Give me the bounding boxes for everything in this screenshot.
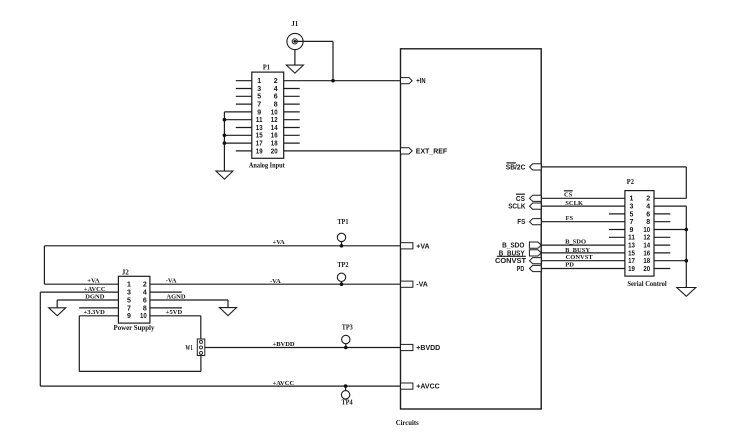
wire P2 pin 5 stub (609, 213, 625, 215)
svg-text:TP4: TP4 (342, 397, 353, 406)
jumper W1 body (197, 339, 205, 356)
port +AVCC (401, 383, 413, 389)
svg-text:6: 6 (274, 94, 278, 101)
svg-text:Analog Input: Analog Input (249, 163, 285, 170)
wire P1 pin 1 stub (236, 80, 252, 82)
wire J2 pin 3 +AVCC (40, 291, 118, 293)
wire P1 pin 19 stub (236, 150, 252, 152)
wire B_BUSY block to P2 pin 15 (541, 252, 625, 254)
svg-text:Serial Control: Serial Control (627, 281, 666, 288)
wire J2 pin 10 +5VD (150, 315, 201, 317)
connector J2 body (118, 276, 149, 323)
wire J2 pin 5 DGND (57, 299, 118, 301)
test point TP2 (337, 273, 345, 281)
svg-text:4: 4 (646, 204, 650, 211)
svg-text:12: 12 (271, 117, 278, 124)
svg-text:10: 10 (140, 313, 147, 320)
svg-text:18: 18 (643, 258, 650, 265)
wire P1 pin 18 stub (284, 142, 300, 144)
port SCLK (530, 203, 542, 209)
svg-text:SCLK: SCLK (508, 204, 525, 211)
svg-text:18: 18 (271, 141, 278, 148)
test point TP4 (341, 391, 349, 399)
wire CS block to P2 pin 1 (541, 197, 625, 199)
wire +3.3VD bottom run (79, 370, 201, 372)
wire P1 pin 5 stub (236, 95, 252, 97)
junction P1 pin 17 (223, 141, 227, 145)
svg-text:8: 8 (274, 102, 278, 109)
wire AGND drop (227, 300, 229, 308)
wire DGND drop (56, 300, 58, 308)
wire P2 pin 4 to ground rail (654, 205, 686, 207)
svg-text:AGND: AGND (166, 294, 185, 301)
svg-text:7: 7 (257, 102, 261, 109)
wire +AVCC to block (40, 385, 400, 387)
svg-text:EXT_REF: EXT_REF (416, 148, 448, 155)
wire W1 middle pin +BVDD to block (205, 347, 401, 349)
svg-text:4: 4 (274, 86, 278, 93)
svg-text:20: 20 (643, 266, 650, 273)
svg-text:5: 5 (257, 94, 261, 101)
wire P2 pin 12 stub (654, 236, 670, 238)
svg-text:J2: J2 (122, 268, 129, 277)
ground AGND (220, 308, 237, 316)
svg-text:+AVCC: +AVCC (416, 384, 439, 391)
wire P1 pin 11 to ground rail (224, 119, 251, 121)
wire P2 pin 10 to ground rail (654, 229, 686, 231)
wire J2 pin 1 +VA (44, 283, 118, 285)
wire P2 pin 6 stub (654, 213, 670, 215)
svg-text:7: 7 (630, 219, 634, 226)
svg-text:-VA: -VA (166, 277, 177, 284)
svg-text:+VA: +VA (416, 243, 429, 250)
svg-text:3: 3 (630, 204, 634, 211)
svg-text:+VA: +VA (87, 277, 100, 284)
svg-text:-VA: -VA (416, 282, 428, 289)
svg-text:+5VD: +5VD (166, 309, 183, 316)
svg-text:8: 8 (646, 219, 650, 226)
ground below P1 (216, 171, 233, 179)
wire P1 pin 4 stub (284, 88, 300, 90)
wire P2 ground rail (685, 206, 687, 287)
wire +VA to block (44, 245, 400, 247)
wire P1 pin 17 to ground rail (224, 142, 251, 144)
wire P1 ground rail (223, 112, 225, 171)
svg-text:16: 16 (643, 250, 650, 257)
test point TP1 (337, 233, 345, 241)
wire P1 pin 9 to ground rail (224, 111, 251, 113)
svg-text:+3.3VD: +3.3VD (84, 309, 106, 316)
wire P1 pin 20 to EXT_REF port (284, 150, 401, 152)
wire CONVST block to P2 pin 17 (541, 260, 625, 262)
wire P1 pin 2 to +IN port (284, 80, 401, 82)
wire +3.3VD riser to W1 (200, 356, 202, 372)
wire P2 pin 14 stub (654, 244, 670, 246)
svg-text:B_BUSY: B_BUSY (565, 247, 590, 254)
wire FS block to P2 pin 7 (541, 221, 625, 223)
svg-text:9: 9 (630, 227, 634, 234)
svg-text:J1: J1 (291, 19, 298, 28)
svg-text:15: 15 (628, 250, 635, 257)
svg-text:Power Supply: Power Supply (114, 325, 155, 332)
port CONVST (530, 258, 542, 264)
wire P1 pin 14 stub (284, 127, 300, 129)
svg-text:14: 14 (643, 243, 650, 250)
svg-text:19: 19 (256, 148, 263, 155)
wire P1 pin 16 stub (284, 134, 300, 136)
junction P1 pin 15 (223, 134, 227, 138)
svg-text:5: 5 (630, 211, 634, 218)
wire J2 pin 2 -VA to block (150, 283, 401, 285)
svg-text:+VA: +VA (273, 239, 286, 246)
svg-text:9: 9 (127, 313, 131, 320)
port -VA (401, 281, 413, 287)
svg-text:1: 1 (630, 196, 634, 203)
svg-text:13: 13 (256, 125, 263, 132)
wire SCLK block to P2 pin 3 (541, 205, 625, 207)
junction P2 pin 10 (685, 228, 689, 232)
wire P2 pin 18 to ground rail (654, 260, 686, 262)
port FS (530, 219, 542, 225)
wire P1 pin 6 stub (284, 95, 300, 97)
svg-text:17: 17 (256, 141, 263, 148)
port B_SDO (529, 242, 541, 248)
junction +IN net at J1 drop (331, 79, 335, 83)
svg-text:+BVDD: +BVDD (273, 341, 295, 348)
svg-text:DGND: DGND (85, 294, 104, 301)
svg-text:19: 19 (628, 266, 635, 273)
wire P2 pin 16 stub (654, 252, 670, 254)
svg-text:2: 2 (143, 282, 147, 289)
svg-text:10: 10 (643, 227, 650, 234)
svg-text:SB/2C: SB/2C (506, 164, 526, 171)
wire corner down to +IN net (332, 41, 334, 80)
wire +3.3VD drop (78, 316, 80, 372)
svg-text:CONVST: CONVST (495, 258, 527, 265)
svg-text:W1: W1 (185, 343, 193, 352)
port PD (530, 265, 542, 271)
port CS (530, 195, 542, 201)
svg-text:11: 11 (256, 117, 263, 124)
test point TP3 (342, 335, 350, 343)
ground DGND (49, 308, 66, 316)
wire P2 pin 8 stub (654, 221, 670, 223)
wire +5VD drop to W1 (200, 316, 202, 339)
svg-text:11: 11 (628, 235, 635, 242)
svg-text:PD: PD (517, 266, 524, 273)
svg-text:1: 1 (127, 282, 131, 289)
svg-text:17: 17 (628, 258, 635, 265)
wire SB/2C corner down (685, 167, 687, 198)
svg-text:P2: P2 (627, 177, 634, 186)
port B_BUSY (529, 250, 541, 256)
wire J2 pin 7 stub (79, 307, 118, 309)
wire J2 pin 6 AGND (150, 299, 228, 301)
junction P1 pin 11 (223, 118, 227, 122)
svg-text:3: 3 (257, 86, 261, 93)
wire +AVCC dropper (39, 292, 41, 386)
svg-text:20: 20 (271, 148, 278, 155)
svg-text:PD: PD (565, 262, 574, 269)
svg-text:CS: CS (516, 196, 525, 203)
svg-text:Circuits: Circuits (396, 420, 419, 427)
svg-text:TP3: TP3 (342, 323, 353, 332)
svg-text:5: 5 (127, 297, 131, 304)
svg-text:2: 2 (274, 78, 278, 85)
wire P2 pin 20 stub (654, 268, 670, 270)
wire P2 pin 9 stub (609, 229, 625, 231)
svg-text:P1: P1 (263, 62, 270, 71)
port +BVDD (401, 344, 413, 350)
hierarchical block Circuits (401, 49, 542, 409)
svg-text:+BVDD: +BVDD (416, 345, 440, 352)
wire SB/2C to P2 pin 2 (654, 197, 686, 199)
svg-text:10: 10 (271, 109, 278, 116)
svg-text:+IN: +IN (416, 78, 425, 85)
connector P1 body (252, 72, 284, 158)
svg-text:FS: FS (517, 219, 525, 226)
port SB/2C (530, 164, 542, 170)
wire J1 shield stem (294, 50, 296, 66)
svg-text:3: 3 (127, 290, 131, 297)
svg-text:CS: CS (564, 192, 573, 199)
wire P1 pin 10 stub (284, 111, 300, 113)
wire J2 pin 4 stub (150, 291, 182, 293)
wire SB/2C block to corner (541, 166, 686, 168)
svg-text:8: 8 (143, 305, 147, 312)
svg-text:-VA: -VA (270, 278, 281, 285)
wire J2 pin 9 +3.3VD (79, 315, 118, 317)
svg-text:CONVST: CONVST (566, 254, 594, 261)
BNC connector J1 (287, 33, 303, 49)
svg-text:FS: FS (566, 215, 574, 222)
junction P2 pin 18 (685, 259, 689, 263)
svg-text:TP1: TP1 (337, 217, 348, 226)
wire PD block to P2 pin 19 (541, 268, 625, 270)
port +IN (401, 78, 413, 84)
connector P2 body (625, 191, 654, 277)
port EXT_REF (401, 148, 413, 154)
svg-text:SCLK: SCLK (565, 200, 583, 207)
wire P1 pin 12 stub (284, 119, 300, 121)
svg-text:B_SDO: B_SDO (502, 243, 525, 250)
svg-text:2: 2 (646, 196, 650, 203)
wire P1 pin 15 to ground rail (224, 134, 251, 136)
svg-text:7: 7 (127, 305, 131, 312)
wire P2 pin 11 stub (609, 236, 625, 238)
svg-text:+AVCC: +AVCC (273, 380, 295, 387)
svg-text:6: 6 (646, 211, 650, 218)
svg-text:15: 15 (256, 133, 263, 140)
svg-text:1: 1 (257, 78, 261, 85)
wire P1 pin 13 stub (236, 127, 252, 129)
wire P1 pin 3 stub (236, 88, 252, 90)
svg-text:+AVCC: +AVCC (84, 286, 106, 293)
svg-text:9: 9 (257, 109, 261, 116)
svg-text:14: 14 (271, 125, 278, 132)
ground below P2 rail (677, 288, 696, 297)
wire P1 pin 7 stub (236, 103, 252, 105)
wire +VA riser (43, 246, 45, 284)
wire J2 pin 8 stub (150, 307, 182, 309)
svg-text:6: 6 (143, 297, 147, 304)
port +VA (401, 243, 413, 249)
svg-text:16: 16 (271, 133, 278, 140)
ground below J1 (286, 65, 303, 73)
svg-text:TP2: TP2 (337, 260, 348, 269)
svg-text:4: 4 (143, 290, 147, 297)
svg-text:13: 13 (628, 243, 635, 250)
svg-text:12: 12 (643, 235, 650, 242)
svg-text:B_SDO: B_SDO (565, 239, 586, 246)
wire B_SDO block to P2 pin 13 (541, 244, 625, 246)
wire J1 center to corner (295, 40, 333, 42)
wire P1 pin 8 stub (284, 103, 300, 105)
